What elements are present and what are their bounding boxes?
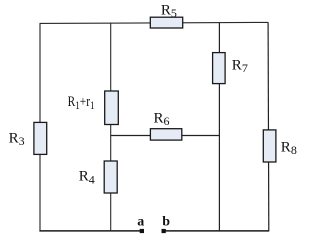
wire middle-right vertical xyxy=(218,23,220,231)
svg-text:R3: R3 xyxy=(9,130,25,148)
terminal b xyxy=(162,229,166,233)
wire bottom right xyxy=(165,230,269,232)
resistor R7 xyxy=(213,53,226,84)
terminal a xyxy=(140,229,144,233)
svg-text:R8: R8 xyxy=(281,139,297,157)
resistor R8 xyxy=(263,130,276,162)
wire right vertical xyxy=(267,22,270,231)
svg-text:R6: R6 xyxy=(154,111,170,129)
svg-text:R5: R5 xyxy=(161,2,177,20)
svg-text:R7: R7 xyxy=(232,57,248,75)
resistor R4 xyxy=(104,161,117,193)
resistor R1+r1 xyxy=(105,91,119,125)
svg-text:R4: R4 xyxy=(79,169,95,187)
wire top xyxy=(40,22,269,23)
svg-text:R1+r1: R1+r1 xyxy=(68,94,95,112)
svg-text:a: a xyxy=(137,214,144,229)
wire middle-left vertical xyxy=(110,23,112,231)
wire left vertical xyxy=(39,23,41,230)
svg-text:b: b xyxy=(162,214,170,229)
resistor R3 xyxy=(34,122,47,154)
resistor R6 xyxy=(150,129,181,140)
wire bottom left xyxy=(39,230,140,232)
wire middle horizontal xyxy=(111,135,220,137)
resistor R5 xyxy=(150,17,182,28)
